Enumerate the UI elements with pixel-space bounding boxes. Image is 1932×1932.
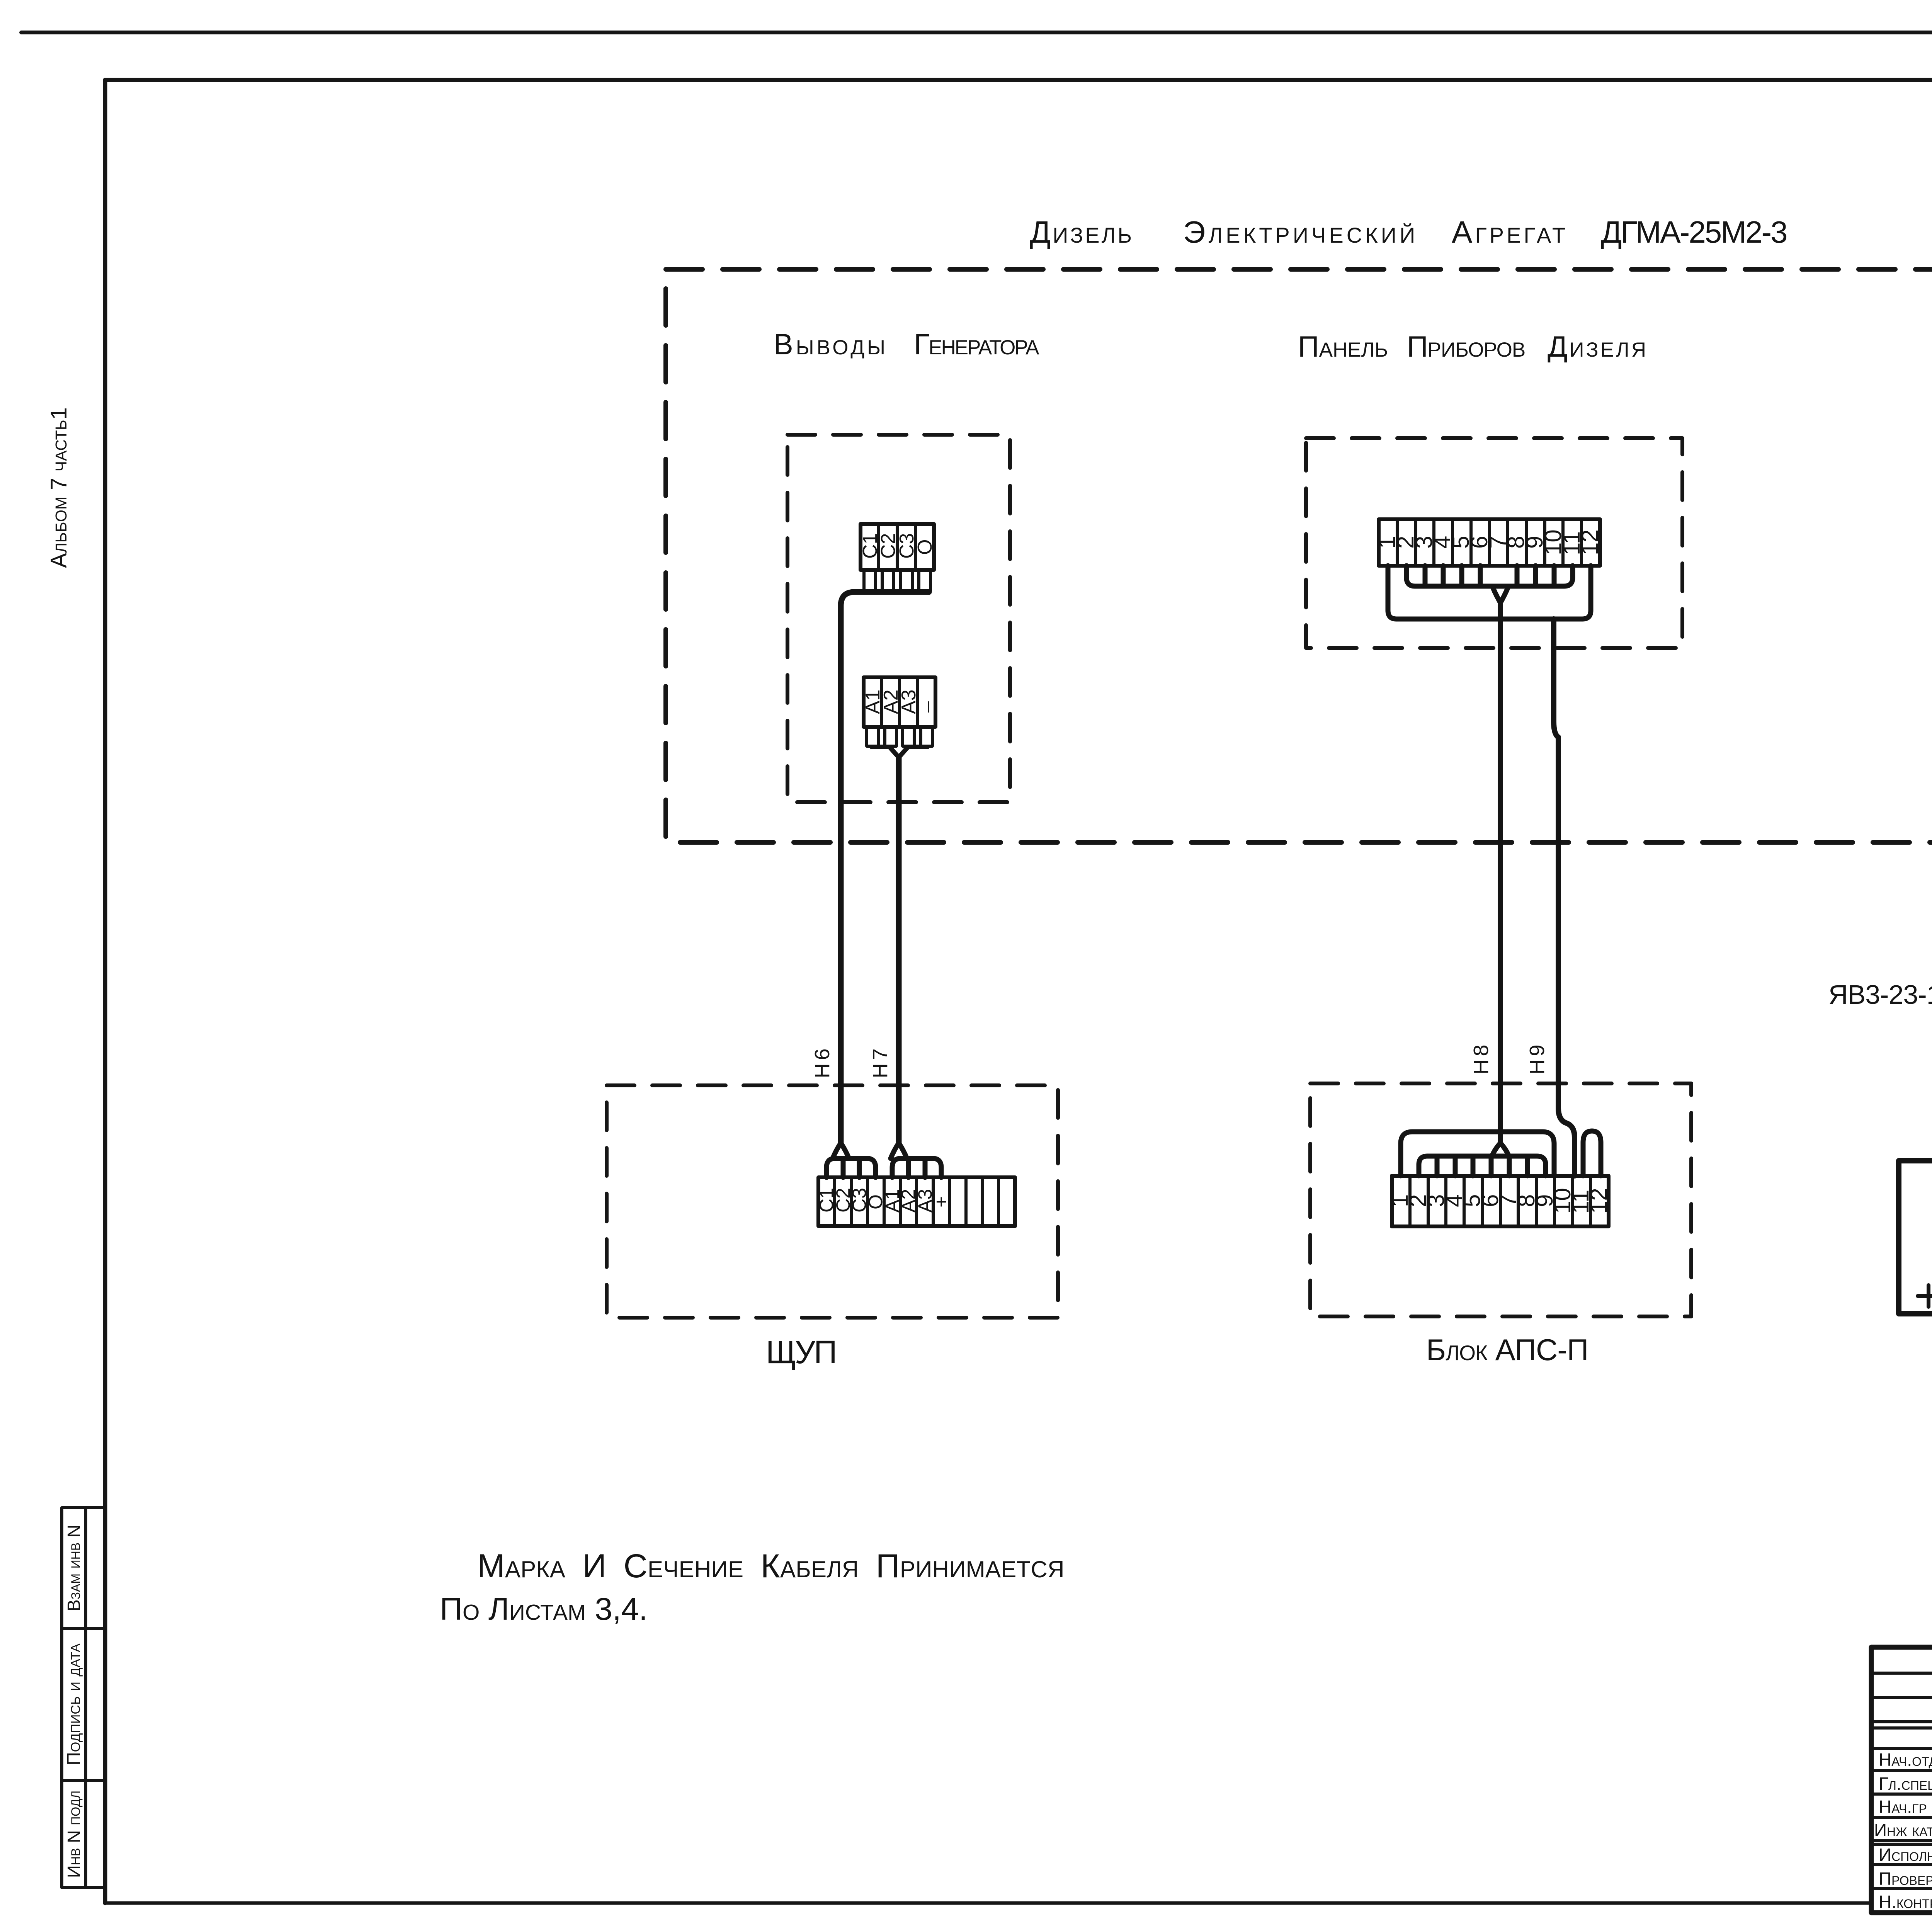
svg-text:12: 12	[1586, 1188, 1612, 1214]
svg-text:Подпись и дата: Подпись и дата	[64, 1643, 84, 1765]
svg-text:Исполн: Исполн	[1879, 1845, 1932, 1865]
terminal block C1 C2 C3 O	[861, 524, 934, 570]
svg-text:Электрический: Электрический	[1183, 215, 1418, 249]
pins of block A	[867, 727, 878, 746]
svg-text:Нач.гр: Нач.гр	[1879, 1797, 1927, 1817]
APS-P fan lower bracket cells 2-8	[1419, 1156, 1546, 1176]
svg-text:Агрегат: Агрегат	[1452, 215, 1568, 249]
wire H8 panel to APS-P	[1498, 603, 1503, 1143]
inner frame top edge	[105, 78, 1932, 82]
dashed box block APS-P	[1310, 1083, 1691, 1316]
terminal block A1 A2 A3 minus	[864, 677, 935, 727]
svg-text:ЩУП: ЩУП	[766, 1334, 836, 1370]
big dashed enclosure diesel unit DGMA-25M2-3	[666, 269, 1932, 842]
svg-text:ЯВ3-23-1: ЯВ3-23-1	[1828, 980, 1932, 1010]
wire H9 panel to APS-P	[1554, 619, 1575, 1176]
APS-P fan right bracket cells 11-12	[1583, 1131, 1601, 1176]
panel fan upper bus cells 2-11	[1406, 566, 1573, 586]
svg-text:Приборов: Приборов	[1407, 330, 1525, 363]
svg-text:ДГМА-25М2-3: ДГМА-25М2-3	[1601, 215, 1787, 249]
title block outer	[1871, 1647, 1932, 1913]
wire H6 from block C bus down to SHCHUP	[841, 592, 929, 1143]
svg-text:Марка И Сечение Кабеля Принима: Марка И Сечение Кабеля Принимается	[477, 1548, 1065, 1585]
bus of block A	[872, 745, 927, 749]
svg-text:Генератора: Генератора	[914, 328, 1039, 361]
svg-text:О: О	[914, 539, 936, 555]
svg-text:Н6: Н6	[811, 1045, 834, 1078]
svg-text:По Листам 3,4.: По Листам 3,4.	[440, 1592, 648, 1627]
terminal strip instrument panel 1..12	[1379, 519, 1600, 566]
svg-text:Инв N подл: Инв N подл	[64, 1791, 84, 1878]
svg-text:Гл.спец: Гл.спец	[1879, 1774, 1932, 1794]
svg-text:Инж кат: Инж кат	[1874, 1820, 1932, 1840]
left margin label cells	[62, 1508, 105, 1888]
sheet outer top border	[21, 31, 1932, 34]
APS-P fan H8 fork	[1492, 1143, 1509, 1156]
pins of block C	[864, 570, 876, 591]
dashed box diesel instrument panel	[1306, 438, 1682, 648]
dashed box SHCHUP	[607, 1085, 1058, 1318]
svg-text:Блок АПС-П: Блок АПС-П	[1426, 1333, 1588, 1367]
svg-text:Выводы: Выводы	[774, 328, 888, 361]
inner frame left edge	[103, 80, 107, 1903]
svg-text:–: –	[916, 701, 938, 713]
svg-text:Провер: Провер	[1879, 1869, 1932, 1889]
battery 1 plus sign	[1918, 1285, 1932, 1307]
svg-text:Н.контр: Н.контр	[1879, 1892, 1932, 1912]
SHCHUP fan group H6 over C1..O	[827, 1158, 876, 1177]
svg-text:Взам инв N: Взам инв N	[64, 1525, 84, 1611]
svg-text:12: 12	[1577, 529, 1603, 555]
SHCHUP fan group H7 over A1..plus	[892, 1158, 941, 1177]
APS-P fan upper bracket cell 1 to cell 9	[1401, 1132, 1554, 1176]
wire from switch left pole to battery 1 plus	[1899, 1004, 1932, 1314]
terminal strip SHCHUP C1..+	[818, 1177, 1015, 1226]
terminal strip block APS-P 1..12	[1392, 1176, 1609, 1226]
svg-text:+: +	[930, 1196, 952, 1207]
inner frame bottom edge	[105, 1901, 1871, 1905]
svg-text:Дизеля: Дизеля	[1548, 330, 1648, 363]
svg-text:Панель: Панель	[1298, 330, 1388, 363]
svg-text:Н8: Н8	[1469, 1041, 1493, 1074]
title block left table horizontals	[1871, 1673, 1932, 1888]
svg-text:Н9: Н9	[1526, 1041, 1549, 1074]
svg-text:Н7: Н7	[869, 1045, 892, 1078]
svg-text:Дизель: Дизель	[1030, 215, 1134, 249]
svg-text:Нач.отд: Нач.отд	[1879, 1750, 1932, 1770]
panel fan lower bracket cells 1 and 12	[1388, 566, 1591, 619]
dashed box generator terminals	[787, 435, 1010, 802]
svg-text:Альбом 7 часть1: Альбом 7 часть1	[46, 407, 71, 568]
wire H7 from block A down to SHCHUP	[896, 757, 902, 1143]
